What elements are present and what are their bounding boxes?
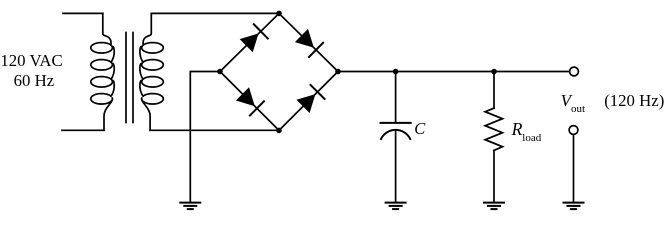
diode D3	[236, 87, 255, 106]
resistor Rload zigzag	[485, 108, 502, 150]
wire: resistor top lead	[493, 72, 495, 109]
wire: capacitor top lead	[395, 72, 397, 122]
wire: bridge left node to ground	[190, 72, 220, 203]
capacitor C top plate	[381, 122, 411, 124]
wire: secondary bottom to bridge bottom	[150, 129, 279, 131]
ground: capacitor	[385, 202, 407, 204]
capacitor C curved plate	[381, 130, 410, 139]
terminal: Vout top	[570, 67, 579, 76]
bridge left node	[217, 69, 223, 75]
wire: resistor bottom lead	[493, 150, 495, 202]
transformer T1 primary winding	[91, 13, 114, 130]
ground: resistor	[483, 202, 505, 204]
diode D2	[295, 29, 314, 48]
wire: secondary top to bridge top	[151, 12, 279, 14]
node: capacitor junction	[393, 69, 399, 75]
wire: capacitor bottom lead	[395, 130, 397, 202]
label: 120 VAC	[0, 51, 62, 71]
ground: bridge left	[179, 202, 201, 204]
wire: bridge diamond	[220, 13, 338, 130]
diode D1	[240, 33, 259, 52]
label: Vout	[561, 91, 585, 115]
wire: output rail	[338, 71, 569, 73]
bridge bottom node	[276, 128, 282, 134]
transformer T1 secondary winding	[140, 13, 163, 130]
ground: output	[563, 202, 585, 204]
label: C	[414, 119, 425, 139]
wire: lower terminal to ground	[573, 135, 575, 202]
bridge top node	[276, 11, 282, 17]
node: resistor junction	[491, 69, 497, 75]
label: (120 Hz)	[604, 91, 664, 111]
bridge right node	[335, 69, 341, 75]
transformer core	[125, 33, 127, 123]
wire: AC source bottom lead	[62, 129, 104, 131]
terminal: Vout bottom	[569, 126, 578, 135]
label: 60 Hz	[14, 71, 55, 91]
diode D4	[296, 94, 315, 113]
wire: AC source top lead	[63, 12, 103, 14]
label: Rload	[512, 119, 542, 144]
